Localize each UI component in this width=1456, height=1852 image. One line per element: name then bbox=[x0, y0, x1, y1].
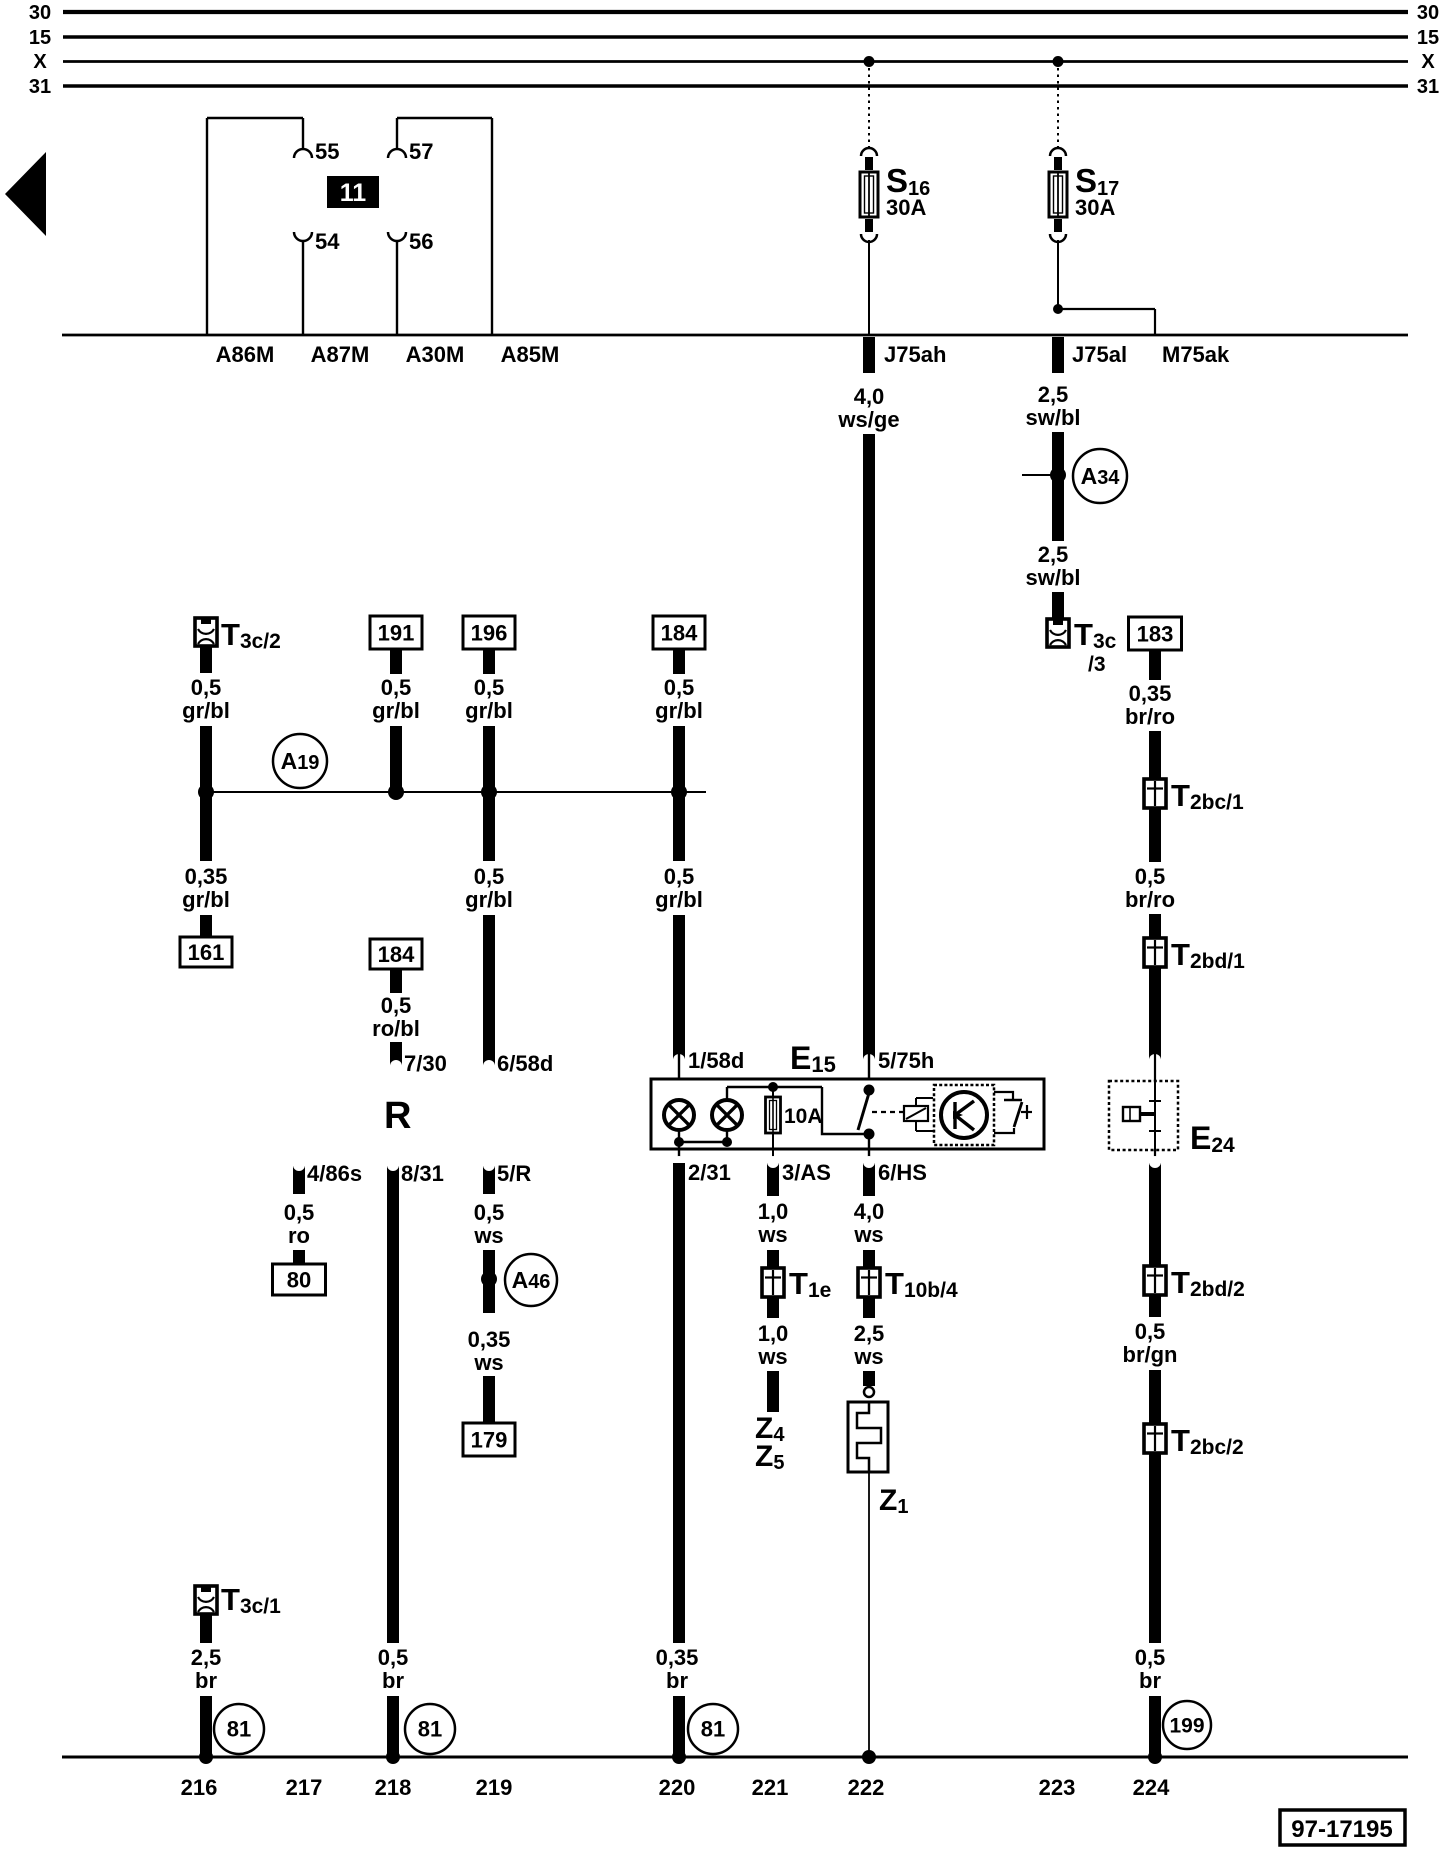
svg-text:sw/bl: sw/bl bbox=[1025, 405, 1080, 430]
svg-text:1,0: 1,0 bbox=[758, 1321, 789, 1346]
svg-text:gr/bl: gr/bl bbox=[655, 887, 703, 912]
svg-text:br: br bbox=[1139, 1668, 1161, 1693]
svg-text:6/HS: 6/HS bbox=[878, 1160, 927, 1185]
svg-text:31: 31 bbox=[1417, 76, 1439, 98]
svg-text:gr/bl: gr/bl bbox=[655, 698, 703, 723]
svg-text:4,0: 4,0 bbox=[854, 384, 885, 409]
svg-text:0,5: 0,5 bbox=[474, 864, 505, 889]
svg-text:56: 56 bbox=[409, 229, 433, 254]
svg-text:A85M: A85M bbox=[501, 342, 560, 367]
svg-text:0,35: 0,35 bbox=[185, 864, 228, 889]
svg-text:gr/bl: gr/bl bbox=[465, 698, 513, 723]
svg-text:J75ah: J75ah bbox=[884, 342, 946, 367]
svg-text:81: 81 bbox=[701, 1717, 725, 1742]
svg-text:31: 31 bbox=[29, 76, 51, 98]
svg-text:ws: ws bbox=[757, 1222, 787, 1247]
svg-text:5/R: 5/R bbox=[497, 1161, 531, 1186]
svg-text:br/gn: br/gn bbox=[1123, 1342, 1178, 1367]
svg-text:A34: A34 bbox=[1081, 463, 1121, 489]
svg-text:10A: 10A bbox=[784, 1105, 823, 1128]
svg-text:0,5: 0,5 bbox=[664, 864, 695, 889]
svg-text:J75al: J75al bbox=[1072, 342, 1127, 367]
svg-text:/3: /3 bbox=[1088, 653, 1106, 676]
svg-text:55: 55 bbox=[315, 139, 339, 164]
svg-text:199: 199 bbox=[1169, 1715, 1204, 1738]
svg-text:1,0: 1,0 bbox=[758, 1199, 789, 1224]
svg-text:0,5: 0,5 bbox=[381, 675, 412, 700]
svg-text:4/86s: 4/86s bbox=[307, 1161, 362, 1186]
svg-text:222: 222 bbox=[848, 1775, 885, 1800]
svg-text:97-17195: 97-17195 bbox=[1291, 1816, 1392, 1843]
svg-text:5/75h: 5/75h bbox=[878, 1048, 934, 1073]
svg-text:30: 30 bbox=[1417, 2, 1439, 24]
svg-text:0,35: 0,35 bbox=[468, 1327, 511, 1352]
svg-text:0,5: 0,5 bbox=[664, 675, 695, 700]
svg-text:sw/bl: sw/bl bbox=[1025, 565, 1080, 590]
svg-text:30A: 30A bbox=[1075, 195, 1115, 220]
svg-text:ws/ge: ws/ge bbox=[837, 407, 899, 432]
svg-text:216: 216 bbox=[181, 1775, 218, 1800]
svg-text:ws: ws bbox=[853, 1222, 883, 1247]
svg-text:A30M: A30M bbox=[406, 342, 465, 367]
svg-text:6/58d: 6/58d bbox=[497, 1051, 553, 1076]
svg-text:ro/bl: ro/bl bbox=[372, 1016, 420, 1041]
svg-text:223: 223 bbox=[1039, 1775, 1076, 1800]
svg-text:A46: A46 bbox=[512, 1267, 551, 1293]
svg-text:ws: ws bbox=[853, 1344, 883, 1369]
svg-text:7/30: 7/30 bbox=[404, 1051, 447, 1076]
svg-text:221: 221 bbox=[752, 1775, 789, 1800]
svg-text:ws: ws bbox=[757, 1344, 787, 1369]
svg-text:gr/bl: gr/bl bbox=[182, 887, 230, 912]
svg-text:X: X bbox=[1421, 51, 1435, 73]
svg-text:196: 196 bbox=[471, 621, 508, 646]
svg-text:218: 218 bbox=[375, 1775, 412, 1800]
svg-text:184: 184 bbox=[378, 942, 415, 967]
svg-text:2,5: 2,5 bbox=[1038, 382, 1069, 407]
svg-text:2,5: 2,5 bbox=[1038, 542, 1069, 567]
svg-text:0,5: 0,5 bbox=[474, 675, 505, 700]
svg-text:M75ak: M75ak bbox=[1162, 342, 1230, 367]
svg-text:0,5: 0,5 bbox=[1135, 1645, 1166, 1670]
svg-text:30: 30 bbox=[29, 2, 51, 24]
svg-text:0,35: 0,35 bbox=[656, 1645, 699, 1670]
svg-text:0,5: 0,5 bbox=[1135, 864, 1166, 889]
svg-text:2,5: 2,5 bbox=[854, 1321, 885, 1346]
svg-text:gr/bl: gr/bl bbox=[465, 887, 513, 912]
svg-text:br: br bbox=[666, 1668, 688, 1693]
svg-text:X: X bbox=[33, 51, 47, 73]
svg-text:179: 179 bbox=[471, 1428, 508, 1453]
svg-text:3/AS: 3/AS bbox=[782, 1160, 831, 1185]
svg-text:4,0: 4,0 bbox=[854, 1199, 885, 1224]
svg-text:A87M: A87M bbox=[311, 342, 370, 367]
svg-text:8/31: 8/31 bbox=[401, 1161, 444, 1186]
svg-text:br/ro: br/ro bbox=[1125, 704, 1175, 729]
svg-text:183: 183 bbox=[1137, 622, 1174, 647]
svg-text:ws: ws bbox=[473, 1350, 503, 1375]
svg-text:br/ro: br/ro bbox=[1125, 887, 1175, 912]
svg-text:R: R bbox=[384, 1095, 411, 1137]
svg-text:219: 219 bbox=[476, 1775, 513, 1800]
svg-text:0,5: 0,5 bbox=[191, 675, 222, 700]
svg-text:81: 81 bbox=[418, 1717, 442, 1742]
svg-text:57: 57 bbox=[409, 139, 433, 164]
svg-text:2/31: 2/31 bbox=[688, 1160, 731, 1185]
svg-text:0,5: 0,5 bbox=[284, 1200, 315, 1225]
svg-text:A19: A19 bbox=[281, 748, 320, 774]
svg-text:11: 11 bbox=[340, 179, 367, 207]
svg-text:54: 54 bbox=[315, 229, 340, 254]
svg-text:15: 15 bbox=[1417, 27, 1439, 49]
svg-text:161: 161 bbox=[188, 940, 225, 965]
svg-text:0,35: 0,35 bbox=[1129, 681, 1172, 706]
svg-text:81: 81 bbox=[227, 1717, 251, 1742]
svg-text:217: 217 bbox=[286, 1775, 323, 1800]
svg-text:gr/bl: gr/bl bbox=[182, 698, 230, 723]
svg-text:2,5: 2,5 bbox=[191, 1645, 222, 1670]
svg-text:184: 184 bbox=[661, 621, 698, 646]
svg-text:220: 220 bbox=[659, 1775, 696, 1800]
svg-text:80: 80 bbox=[287, 1268, 311, 1293]
svg-text:br: br bbox=[195, 1668, 217, 1693]
svg-text:ws: ws bbox=[473, 1223, 503, 1248]
svg-text:0,5: 0,5 bbox=[474, 1200, 505, 1225]
svg-text:15: 15 bbox=[29, 27, 51, 49]
svg-text:A86M: A86M bbox=[216, 342, 275, 367]
svg-text:224: 224 bbox=[1133, 1775, 1170, 1800]
svg-text:0,5: 0,5 bbox=[381, 993, 412, 1018]
svg-text:0,5: 0,5 bbox=[378, 1645, 409, 1670]
svg-text:191: 191 bbox=[378, 621, 415, 646]
svg-text:30A: 30A bbox=[886, 195, 926, 220]
svg-text:ro: ro bbox=[288, 1223, 310, 1248]
svg-text:1/58d: 1/58d bbox=[688, 1048, 744, 1073]
svg-text:0,5: 0,5 bbox=[1135, 1319, 1166, 1344]
svg-text:br: br bbox=[382, 1668, 404, 1693]
svg-text:gr/bl: gr/bl bbox=[372, 698, 420, 723]
